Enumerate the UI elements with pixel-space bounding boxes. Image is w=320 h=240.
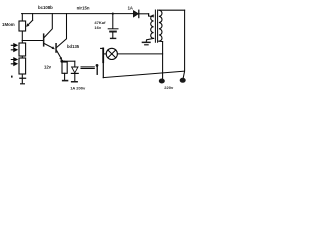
secondary (right) coil (159, 10, 162, 41)
wire emitter to zener (62, 60, 75, 62)
svg-text:1A 200v: 1A 200v (70, 85, 86, 90)
relay coil K1 (62, 61, 68, 81)
capacitor C1 47Kuf (108, 13, 118, 40)
lamp L1 (103, 48, 162, 59)
terminal left 220v (159, 79, 165, 84)
wire bottom run to mains (103, 71, 184, 77)
ground (left column) (19, 74, 26, 84)
wire left mains vertical (162, 42, 164, 79)
wire top supply rail (22, 13, 134, 15)
photoresistor R2 (upper LDR) (11, 41, 25, 57)
wire lamp-left vertical (102, 62, 104, 78)
svg-text:1A: 1A (128, 6, 133, 11)
svg-text:bd135: bd135 (67, 44, 80, 49)
wire right mains vertical (183, 10, 184, 78)
wire stub (left column base) (11, 76, 13, 78)
svg-text:1Mom: 1Mom (2, 22, 15, 27)
svg-text:16v: 16v (94, 25, 101, 30)
svg-text:nir15n: nir15n (77, 5, 90, 10)
zener diode D2 (71, 61, 78, 82)
svg-text:bc108b: bc108b (38, 5, 53, 10)
primary (left) coil (151, 15, 154, 38)
node base junction (22, 40, 43, 42)
photoresistor R3 (lower LDR) (11, 56, 25, 74)
node emitter junction (60, 60, 63, 63)
transistor Q1 bc108b (43, 14, 55, 50)
svg-text:220v: 220v (164, 85, 174, 90)
svg-text:12v: 12v (44, 64, 52, 69)
core (155, 10, 157, 42)
diode D1 1A (133, 10, 148, 17)
terminal right 220v (180, 78, 186, 83)
ground (transformer) (142, 42, 151, 44)
transformer T1 (142, 10, 185, 45)
relay contact S1 (81, 48, 103, 74)
transistor Q2 bd135 (55, 14, 66, 61)
potentiometer R1 1Mom (19, 14, 33, 41)
